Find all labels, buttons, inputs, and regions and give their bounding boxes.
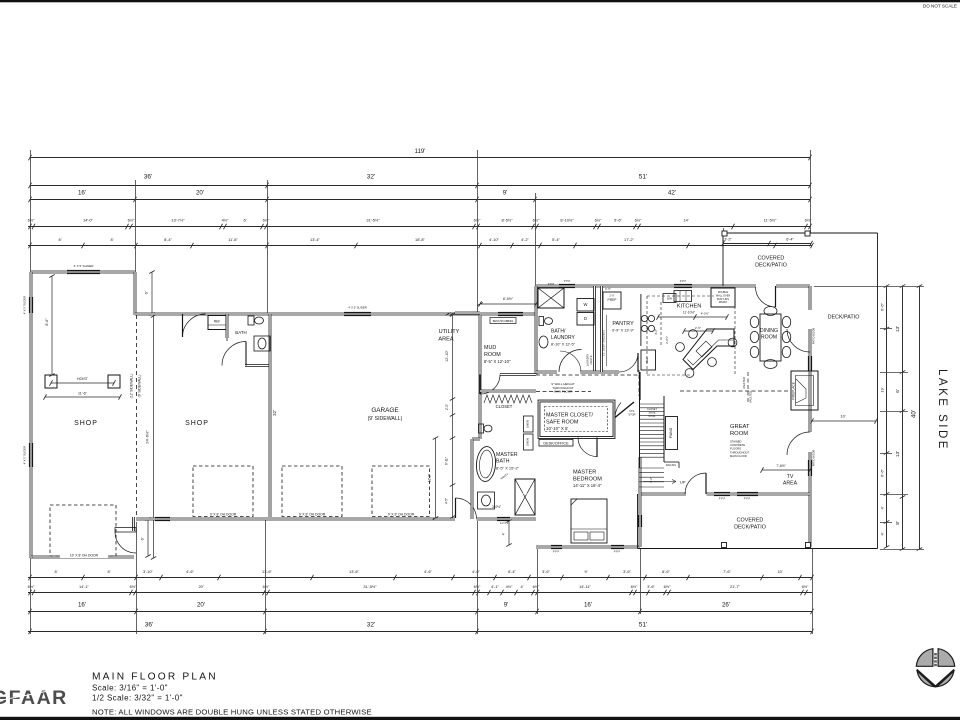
- svg-text:COVERED: COVERED: [737, 518, 764, 524]
- svg-text:P P P: P P P: [680, 279, 687, 283]
- svg-text:5'-4": 5'-4": [552, 237, 560, 242]
- svg-text:Scale: 3/16" = 1'-0": Scale: 3/16" = 1'-0": [92, 684, 168, 693]
- svg-text:(12' SIDEWALL): (12' SIDEWALL): [130, 374, 134, 399]
- svg-text:13'-2": 13'-2": [722, 238, 732, 242]
- svg-text:7'-6": 7'-6": [723, 569, 731, 574]
- svg-text:6½": 6½": [28, 584, 35, 589]
- svg-text:9' X 8' OH DOOR: 9' X 8' OH DOOR: [210, 513, 237, 517]
- svg-text:6½": 6½": [130, 584, 137, 589]
- svg-text:BATH/: BATH/: [551, 329, 566, 335]
- svg-text:16': 16': [78, 602, 86, 609]
- svg-text:8'-10½": 8'-10½": [560, 218, 574, 223]
- svg-text:SAFE ROOM: SAFE ROOM: [546, 420, 579, 426]
- svg-text:8'-5½": 8'-5½": [503, 297, 514, 301]
- svg-text:6': 6': [244, 218, 247, 223]
- svg-text:RAILING: RAILING: [666, 463, 676, 467]
- svg-text:6': 6': [895, 389, 901, 393]
- svg-text:GARAGE: GARAGE: [371, 407, 398, 414]
- svg-text:4'-6": 4'-6": [472, 569, 480, 574]
- svg-text:13': 13': [895, 326, 901, 332]
- svg-text:PREP: PREP: [608, 298, 618, 302]
- svg-text:DINING: DINING: [760, 328, 778, 334]
- svg-text:20': 20': [198, 584, 203, 589]
- svg-text:6'-6": 6'-6": [880, 468, 885, 477]
- svg-text:CHUTE: CHUTE: [589, 355, 593, 364]
- svg-text:MUD: MUD: [484, 345, 496, 351]
- svg-text:MAIN FLOOR: MAIN FLOOR: [554, 390, 574, 394]
- svg-text:P P P: P P P: [719, 497, 726, 501]
- svg-text:DECK/PATIO: DECK/PATIO: [828, 315, 860, 321]
- svg-text:4'-2½": 4'-2½": [701, 312, 709, 316]
- svg-text:AREA: AREA: [783, 481, 798, 487]
- svg-text:4': 4': [880, 506, 885, 509]
- svg-text:6½": 6½": [263, 218, 270, 223]
- svg-text:11'-5½": 11'-5½": [764, 218, 777, 223]
- svg-text:8'-5" X 15'-2": 8'-5" X 15'-2": [496, 466, 520, 471]
- svg-text:36': 36': [144, 174, 152, 181]
- svg-text:LAUNDRY: LAUNDRY: [586, 354, 590, 367]
- svg-text:3'-6": 3'-6": [647, 584, 655, 589]
- svg-text:2'-5": 2'-5": [445, 404, 449, 410]
- svg-text:CLOSET: CLOSET: [496, 404, 513, 409]
- svg-text:6½": 6½": [635, 218, 642, 223]
- svg-text:4': 4': [880, 532, 885, 535]
- svg-text:1/2 Scale: 3/32" = 1'-0": 1/2 Scale: 3/32" = 1'-0": [92, 694, 183, 703]
- svg-text:11'-8": 11'-8": [228, 237, 238, 242]
- svg-text:4'-6": 4'-6": [186, 569, 194, 574]
- svg-text:12'-2": 12'-2": [428, 474, 432, 482]
- svg-text:BEDROOM: BEDROOM: [573, 477, 602, 483]
- svg-text:VAULTED: VAULTED: [742, 377, 746, 389]
- svg-text:16': 16': [78, 190, 86, 197]
- svg-text:4'-2": 4'-2": [521, 237, 529, 242]
- svg-text:8'-6": 8'-6": [662, 569, 670, 574]
- svg-text:9' X 8' OH DOOR: 9' X 8' OH DOOR: [388, 513, 415, 517]
- svg-text:11'-10½": 11'-10½": [683, 311, 695, 315]
- svg-text:51': 51': [639, 174, 647, 181]
- svg-text:31'-5½": 31'-5½": [366, 218, 380, 223]
- svg-text:6½": 6½": [631, 584, 638, 589]
- svg-text:PIANO: PIANO: [669, 427, 673, 438]
- svg-text:MASTER: MASTER: [496, 452, 518, 458]
- svg-text:6': 6': [145, 291, 149, 294]
- svg-text:7'-6½": 7'-6½": [776, 464, 786, 468]
- svg-text:3'-6": 3'-6": [623, 569, 631, 574]
- svg-text:REF: REF: [214, 320, 221, 324]
- svg-text:4½": 4½": [222, 218, 229, 223]
- svg-text:BENCH/CUBBIES: BENCH/CUBBIES: [493, 320, 514, 323]
- svg-text:PATIO DOOR: PATIO DOOR: [812, 328, 816, 345]
- svg-text:14'-11" X 16'-4": 14'-11" X 16'-4": [573, 483, 602, 488]
- svg-text:14'-11": 14'-11": [579, 584, 591, 589]
- svg-text:40': 40': [911, 410, 918, 418]
- svg-text:32': 32': [272, 410, 277, 416]
- svg-text:26': 26': [722, 602, 730, 609]
- svg-text:4'-5": 4'-5": [445, 498, 449, 504]
- svg-text:DESK/OFFICE: DESK/OFFICE: [543, 442, 569, 446]
- svg-text:ROOM: ROOM: [484, 352, 501, 358]
- svg-text:ROOM: ROOM: [730, 431, 748, 437]
- svg-text:6½": 6½": [595, 218, 602, 223]
- svg-text:6½": 6½": [28, 218, 35, 223]
- svg-text:ROOM: ROOM: [761, 335, 777, 341]
- svg-text:SHOP: SHOP: [74, 420, 98, 427]
- svg-text:13" DEEP SHELVES: 13" DEEP SHELVES: [602, 330, 606, 356]
- svg-text:P P P: P P P: [522, 492, 529, 496]
- svg-text:6'-4": 6'-4": [508, 569, 516, 574]
- svg-text:6½": 6½": [533, 218, 540, 223]
- svg-text:4½": 4½": [506, 584, 513, 589]
- svg-text:8': 8': [108, 569, 111, 574]
- svg-text:LINEN: LINEN: [526, 420, 530, 428]
- svg-text:21'-7": 21'-7": [730, 584, 741, 589]
- svg-text:51': 51': [639, 622, 647, 629]
- svg-text:8': 8': [59, 237, 62, 242]
- svg-text:8': 8': [111, 237, 114, 242]
- svg-text:MAIN FLOOR PLAN: MAIN FLOOR PLAN: [92, 672, 218, 683]
- svg-text:36': 36': [145, 622, 153, 629]
- svg-text:32': 32': [367, 174, 375, 181]
- svg-text:DO NOT SCALE: DO NOT SCALE: [923, 4, 957, 9]
- svg-text:DECK/PATIO: DECK/PATIO: [734, 525, 766, 531]
- svg-text:6½": 6½": [263, 584, 270, 589]
- svg-text:THROUGHOUT: THROUGHOUT: [730, 450, 750, 454]
- svg-text:8'-5" X 12'-10": 8'-5" X 12'-10": [484, 359, 511, 364]
- svg-text:13'-4": 13'-4": [310, 237, 321, 242]
- svg-text:17'-2": 17'-2": [624, 237, 635, 242]
- svg-text:STOR.: STOR.: [648, 415, 656, 418]
- svg-text:10': 10': [840, 414, 845, 419]
- svg-text:9': 9': [585, 569, 588, 574]
- svg-text:NOTE: ALL WINDOWS ARE DOUBLE H: NOTE: ALL WINDOWS ARE DOUBLE HUNG UNLESS…: [92, 708, 372, 717]
- svg-text:UTILITY: UTILITY: [439, 329, 460, 335]
- svg-text:P P P: P P P: [614, 550, 621, 554]
- svg-text:32': 32': [367, 622, 375, 629]
- svg-text:FLOORS: FLOORS: [730, 447, 741, 451]
- svg-text:9'-9" X 13'-9": 9'-9" X 13'-9": [612, 329, 635, 333]
- svg-text:3'-10": 3'-10": [143, 569, 154, 574]
- svg-text:8': 8': [895, 521, 901, 525]
- svg-text:HOIST: HOIST: [77, 377, 89, 381]
- svg-text:4' X 5' SLIDER: 4' X 5' SLIDER: [74, 264, 95, 268]
- svg-text:4': 4': [502, 532, 506, 535]
- svg-text:14': 14': [683, 218, 688, 223]
- svg-text:3'-6": 3'-6": [542, 569, 550, 574]
- svg-text:4' X 5' SLIDER: 4' X 5' SLIDER: [23, 296, 27, 314]
- svg-text:P P P: P P P: [553, 550, 560, 554]
- svg-text:9': 9': [503, 190, 508, 197]
- svg-text:P P P: P P P: [564, 279, 571, 283]
- svg-text:STOR: STOR: [629, 413, 636, 416]
- svg-text:11'-6": 11'-6": [78, 392, 88, 396]
- svg-text:5'-6": 5'-6": [614, 218, 622, 223]
- svg-text:MASTER: MASTER: [573, 470, 596, 476]
- svg-text:P P P: P P P: [744, 497, 751, 501]
- svg-text:4' X 5' SLIDER: 4' X 5' SLIDER: [23, 446, 27, 464]
- svg-text:2'-½": 2'-½": [695, 326, 701, 330]
- svg-text:4'-10": 4'-10": [489, 237, 500, 242]
- svg-text:6'-6": 6'-6": [880, 302, 885, 311]
- svg-text:19': 19': [880, 387, 885, 392]
- svg-text:6½": 6½": [128, 218, 135, 223]
- svg-text:COVERED: COVERED: [758, 256, 785, 262]
- svg-text:16': 16': [584, 602, 592, 609]
- svg-text:4' X 5' SLIDER: 4' X 5' SLIDER: [348, 306, 366, 310]
- svg-text:UP: UP: [680, 480, 686, 485]
- svg-text:AREA: AREA: [438, 337, 454, 343]
- svg-text:PATIO DOOR: PATIO DOOR: [812, 450, 816, 467]
- svg-text:BATH: BATH: [496, 459, 510, 465]
- svg-text:10': 10': [777, 569, 782, 574]
- svg-text:MAIN FLOOR: MAIN FLOOR: [730, 454, 747, 458]
- svg-text:FIREPLACE: FIREPLACE: [792, 382, 796, 400]
- svg-text:24'-6½": 24'-6½": [145, 430, 150, 444]
- svg-text:4'-1": 4'-1": [491, 584, 499, 589]
- svg-text:D: D: [584, 316, 587, 321]
- svg-text:3'-0½": 3'-0½": [492, 505, 501, 509]
- svg-text:31'-5½": 31'-5½": [363, 584, 377, 589]
- svg-text:8'-4": 8'-4": [164, 237, 172, 242]
- svg-text:(9' SIDEWALL): (9' SIDEWALL): [138, 375, 142, 398]
- svg-text:3'-9½": 3'-9½": [665, 336, 669, 344]
- svg-text:13'-7½": 13'-7½": [171, 218, 185, 223]
- svg-text:7'-2": 7'-2": [649, 477, 653, 483]
- svg-text:6': 6': [141, 537, 145, 540]
- svg-text:6½": 6½": [664, 584, 671, 589]
- svg-text:12'-10": 12'-10": [445, 349, 449, 361]
- svg-text:8'-6": 8'-6": [45, 318, 49, 326]
- svg-text:P P P: P P P: [548, 282, 555, 286]
- svg-text:PANTRY: PANTRY: [612, 321, 634, 327]
- svg-text:14'-1": 14'-1": [79, 584, 90, 589]
- svg-text:20': 20': [196, 190, 204, 197]
- svg-text:10' X 8' OH DOOR: 10' X 8' OH DOOR: [70, 554, 99, 558]
- svg-text:4'-6": 4'-6": [424, 569, 432, 574]
- svg-text:4'-2": 4'-2": [654, 329, 658, 335]
- svg-text:119': 119': [415, 149, 426, 155]
- svg-text:BATH: BATH: [235, 330, 246, 335]
- svg-text:6'-11": 6'-11": [445, 457, 449, 465]
- svg-text:W: W: [584, 302, 588, 307]
- svg-text:6½": 6½": [802, 584, 809, 589]
- svg-text:2'-0": 2'-0": [609, 294, 614, 298]
- svg-text:GREAT: GREAT: [730, 424, 750, 430]
- svg-text:LAUNDRY: LAUNDRY: [551, 335, 575, 341]
- svg-text:13'-6": 13'-6": [349, 569, 360, 574]
- svg-text:8': 8': [55, 569, 58, 574]
- svg-text:STAINED: STAINED: [730, 440, 742, 444]
- svg-text:3'-½": 3'-½": [605, 287, 611, 291]
- svg-text:20': 20': [197, 602, 205, 609]
- svg-text:9' X 8' OH DOOR: 9' X 8' OH DOOR: [299, 513, 326, 517]
- svg-text:LINEN: LINEN: [526, 438, 530, 446]
- svg-text:KITCHEN: KITCHEN: [677, 304, 702, 310]
- svg-text:8'-5½": 8'-5½": [502, 218, 514, 223]
- svg-text:10'-10" X 5': 10'-10" X 5': [546, 426, 568, 431]
- svg-text:14'-0": 14'-0": [83, 218, 94, 223]
- svg-text:CONCRETE: CONCRETE: [730, 443, 745, 447]
- svg-text:DW: DW: [667, 297, 672, 301]
- svg-text:13': 13': [895, 451, 901, 457]
- svg-text:6½": 6½": [533, 584, 540, 589]
- svg-text:MASTER CLOSET/: MASTER CLOSET/: [546, 413, 594, 419]
- svg-text:MICRO: MICRO: [719, 301, 727, 304]
- svg-text:13'-6": 13'-6": [262, 569, 273, 574]
- svg-text:6'-4": 6'-4": [786, 238, 794, 242]
- svg-text:SHOP: SHOP: [185, 420, 209, 427]
- svg-text:LAKE SIDE: LAKE SIDE: [936, 369, 948, 451]
- svg-text:42': 42': [668, 190, 676, 197]
- svg-text:DECK/PATIO: DECK/PATIO: [755, 263, 787, 269]
- svg-text:18'-8": 18'-8": [415, 237, 426, 242]
- svg-text:9': 9': [504, 602, 509, 609]
- svg-text:4': 4': [521, 584, 524, 589]
- svg-text:(9' SIDEWALL): (9' SIDEWALL): [368, 416, 403, 422]
- svg-text:8'-10" X 12'-5": 8'-10" X 12'-5": [551, 343, 576, 347]
- svg-text:TV: TV: [787, 474, 794, 480]
- svg-text:VAULTED: VAULTED: [749, 391, 753, 403]
